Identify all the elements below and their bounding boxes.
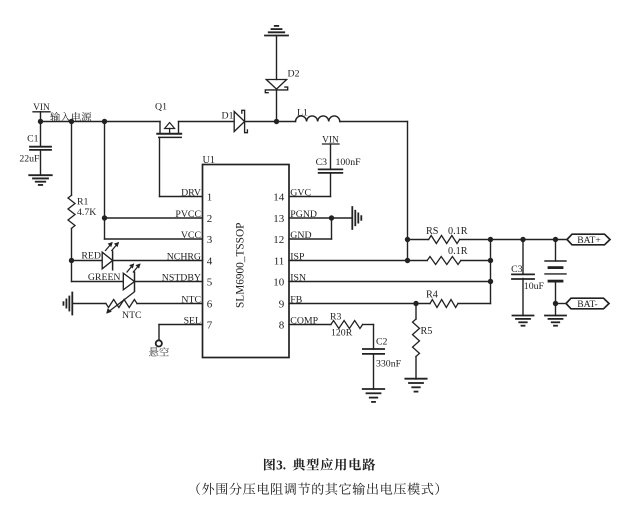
svg-text:C2: C2: [376, 337, 388, 348]
svg-text:SLM6900_TSSOP: SLM6900_TSSOP: [235, 223, 247, 308]
svg-text:4.7K: 4.7K: [77, 207, 96, 218]
svg-text:11: 11: [274, 255, 285, 267]
svg-text:0.1R: 0.1R: [448, 246, 468, 257]
svg-text:Q1: Q1: [155, 102, 167, 113]
svg-text:RED: RED: [81, 251, 101, 262]
svg-text:GVC: GVC: [290, 187, 311, 198]
svg-text:4: 4: [207, 255, 213, 267]
svg-text:C3: C3: [511, 264, 523, 275]
svg-text:D2: D2: [288, 69, 300, 80]
svg-text:R5: R5: [421, 326, 433, 337]
svg-text:9: 9: [279, 298, 285, 310]
svg-text:5: 5: [207, 276, 213, 288]
svg-text:22uF: 22uF: [19, 153, 40, 164]
svg-text:VCC: VCC: [181, 230, 201, 241]
svg-text:3: 3: [207, 234, 213, 246]
svg-text:R4: R4: [426, 290, 438, 301]
svg-text:6: 6: [207, 298, 213, 310]
svg-text:10uF: 10uF: [524, 281, 545, 292]
svg-text:0.1R: 0.1R: [448, 226, 468, 237]
svg-text:330nF: 330nF: [376, 359, 402, 370]
svg-text:RS: RS: [426, 226, 439, 237]
svg-text:D1: D1: [222, 111, 234, 122]
svg-text:1: 1: [207, 191, 213, 203]
svg-text:13: 13: [273, 213, 285, 225]
svg-text:NTC: NTC: [122, 310, 142, 321]
svg-text:10: 10: [273, 276, 285, 288]
svg-text:R3: R3: [330, 311, 342, 322]
svg-text:120R: 120R: [331, 327, 353, 338]
svg-text:100nF: 100nF: [336, 157, 362, 168]
svg-text:R1: R1: [77, 197, 89, 208]
svg-text:8: 8: [279, 319, 285, 331]
svg-text:BAT+: BAT+: [577, 235, 601, 246]
svg-text:C3: C3: [316, 157, 328, 168]
svg-text:C1: C1: [27, 134, 39, 145]
svg-text:GREEN: GREEN: [88, 272, 121, 283]
svg-text:U1: U1: [203, 155, 215, 166]
svg-text:DRV: DRV: [181, 187, 201, 198]
svg-text:12: 12: [273, 234, 284, 246]
svg-text:PVCC: PVCC: [175, 209, 201, 220]
svg-text:3.: 3.: [276, 457, 286, 472]
svg-text:14: 14: [273, 191, 285, 203]
svg-text:2: 2: [207, 213, 213, 225]
svg-text:BAT-: BAT-: [577, 299, 597, 310]
svg-text:7: 7: [207, 319, 213, 331]
